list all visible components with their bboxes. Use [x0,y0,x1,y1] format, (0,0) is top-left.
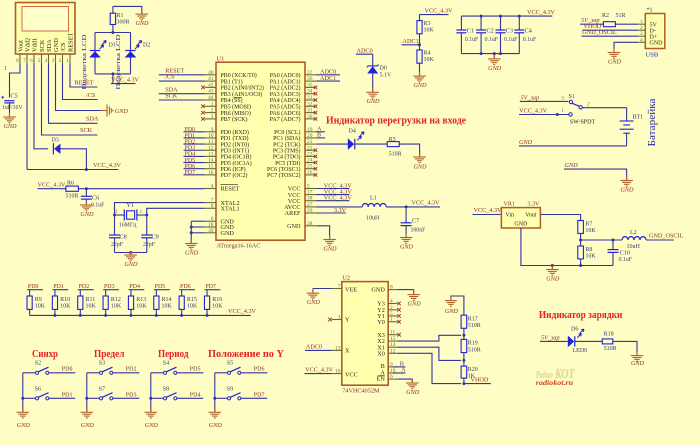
net VHOD at ladder [462,377,490,386]
wire X1 to node B [398,347,462,360]
svg-text:PB1 (T1): PB1 (T1) [221,78,243,85]
svg-text:Y: Y [345,317,350,324]
ground under D0 [366,88,380,105]
svg-text:PD6 (ICP): PD6 (ICP) [221,166,246,173]
net PD1 at S6 [49,392,75,398]
svg-text:VEE: VEE [345,287,357,294]
net SDA at U1 [159,87,205,94]
resistor R15 10K [179,290,198,316]
svg-text:PC5 (TDI): PC5 (TDI) [275,160,300,167]
svg-text:Y0: Y0 [377,319,385,326]
svg-text:ATmega16-16AC: ATmega16-16AC [217,243,261,250]
svg-text:2: 2 [587,102,590,108]
ground sideways at LCD [101,104,128,116]
ground at USB [608,48,622,65]
no-connect marks U1 left [201,86,205,121]
multiplexer U2 74VHC4052M body [342,275,388,395]
svg-text:PD2 (INT0): PD2 (INT0) [221,141,250,148]
GND rail of capacitor bank [461,52,519,59]
svg-text:27: 27 [307,202,313,208]
svg-text:15: 15 [208,164,214,170]
wire SDA stub; net SDA [49,64,99,124]
svg-text:10K: 10K [35,303,46,309]
wire Vout to C5; node 1 [4,64,20,98]
switch S7 [87,386,113,400]
svg-text:PD6: PD6 [180,284,191,290]
svg-text:PD3 (INT1): PD3 (INT1) [221,147,250,154]
svg-text:VCC_4.3V: VCC_4.3V [111,77,140,84]
svg-text:10K: 10K [86,303,97,309]
title S4 group [158,348,189,360]
svg-text:VCC_4.3V: VCC_4.3V [38,181,67,188]
svg-text:510R: 510R [468,323,481,329]
svg-text:4: 4 [390,299,393,305]
svg-text:R8: R8 [585,247,592,253]
svg-text:GND: GND [307,299,321,306]
resistor R13 10K [128,290,147,316]
ground at S5 group [209,408,223,429]
svg-text:22pF: 22pF [111,242,124,248]
svg-text:X0: X0 [377,350,385,357]
svg-text:C5: C5 [11,93,18,100]
resistor R3 10K [417,15,435,45]
net VHOD at USB [583,23,639,30]
net PD4 at S8 [177,392,203,398]
net GND at battery [519,139,627,146]
svg-text:24: 24 [307,158,313,164]
net GND_OSCIL at L2 [646,233,684,240]
svg-text:2: 2 [211,108,214,114]
capacitor C7 100nF [401,207,426,238]
resistor R16 10K [204,290,223,316]
svg-text:PD2: PD2 [79,284,90,290]
svg-text:11: 11 [390,330,395,336]
LCD pins 1-8 [16,54,70,64]
svg-text:S8: S8 [163,386,169,392]
svg-text:10K: 10K [60,303,71,309]
no-connect marks U2 [328,302,401,337]
svg-text:PD0: PD0 [62,367,73,373]
svg-text:S7: S7 [99,386,105,392]
wire U1 PC2 to LED D4 [317,143,348,145]
svg-text:32: 32 [307,101,313,107]
svg-text:C10: C10 [620,250,630,257]
svg-text:25: 25 [307,164,313,170]
svg-text:GND: GND [287,223,301,230]
comment text for D1 [81,34,88,90]
svg-text:S4: S4 [163,361,169,367]
svg-text:S3: S3 [99,361,105,367]
svg-text:510R: 510R [468,347,481,353]
svg-text:5V_зар: 5V_зар [521,94,540,101]
LED D6 [548,327,587,354]
svg-text:GND: GND [565,162,579,169]
svg-text:PA2 (ADC2): PA2 (ADC2) [270,85,301,92]
svg-text:C4: C4 [525,28,532,35]
svg-text:ADC1: ADC1 [403,38,419,45]
svg-text:4: 4 [45,58,48,64]
resistor R9 10K [27,290,46,316]
svg-text:USB: USB [646,52,659,59]
LED D4 [348,129,364,150]
capacitor C2 0.1uF [476,16,499,54]
svg-text:37: 37 [307,70,313,76]
svg-text:PB0 (XCK/T0): PB0 (XCK/T0) [221,72,257,79]
svg-text:PB6 (MISO): PB6 (MISO) [221,110,251,117]
ground under capacitor bank [488,55,502,72]
svg-text:510R: 510R [389,152,402,158]
svg-text:R18: R18 [604,331,614,337]
svg-text:Vout: Vout [525,213,537,219]
wire U2 VEE to ground [313,289,332,294]
svg-text:PD0 (RXD): PD0 (RXD) [221,129,249,136]
svg-text:GND: GND [408,301,422,308]
no-connect marks U1 right [314,86,318,177]
svg-text:PD4 (OC1B): PD4 (OC1B) [221,154,252,161]
wire X2 to node A [398,335,462,341]
svg-text:R10: R10 [60,297,70,303]
svg-text:PC6 (TOSC1): PC6 (TOSC1) [267,166,300,173]
ground mid right [620,176,634,193]
svg-text:10uH: 10uH [366,216,380,222]
svg-text:PD4: PD4 [190,392,201,398]
net ADC0 at U2 [305,343,332,350]
net PD3 at R12 [103,284,119,290]
net 5V_zar at S1 [520,94,568,101]
net VCC_4.3V at U1 pin 5 [317,183,353,190]
svg-text:5V_зар: 5V_зар [541,334,560,341]
svg-text:R19: R19 [468,341,478,347]
svg-text:21: 21 [307,139,313,145]
svg-text:PC2 (TCK): PC2 (TCK) [273,141,300,148]
switch S4 [151,361,177,375]
svg-text:PD3: PD3 [104,284,115,290]
ground at VR1 [546,265,560,282]
svg-text:PB7 (SCK): PB7 (SCK) [221,116,248,123]
svg-text:PC1 (SDA): PC1 (SDA) [273,135,300,142]
svg-text:PA1 (ADC1): PA1 (ADC1) [270,78,301,85]
svg-text:S5: S5 [227,361,233,367]
capacitor C9 22pF [141,214,158,253]
svg-text:U1: U1 [217,56,225,63]
svg-text:2: 2 [390,305,393,311]
net PD5 at R14 [154,284,170,290]
resistor R10 10K [52,290,71,316]
svg-text:0.1uF: 0.1uF [523,37,537,43]
svg-text:VCC_4.3V: VCC_4.3V [305,367,334,374]
title S2 group [32,348,58,360]
svg-text:39: 39 [208,228,214,234]
svg-text:11: 11 [208,139,213,145]
net B at U2 [393,360,406,367]
svg-text:22pF: 22pF [143,242,156,248]
svg-text:PA4 (ADC4): PA4 (ADC4) [270,97,301,104]
svg-text:3: 3 [338,315,341,321]
svg-text:PD5 (OC1A): PD5 (OC1A) [221,160,252,167]
ground at R5 [413,153,427,171]
svg-text:S9: S9 [227,386,233,392]
ground under U1 [185,239,199,256]
net RESET at U1 [159,67,205,75]
title S3 group [94,348,125,360]
svg-text:16: 16 [335,369,341,375]
svg-text:C1: C1 [467,28,474,35]
svg-text:PD7 (OC2): PD7 (OC2) [221,172,248,179]
resistor R5 510R [387,137,401,158]
svg-text:Vdd2: Vdd2 [25,38,32,52]
resistor R20 1K [461,366,478,384]
svg-text:PD1 (TXD): PD1 (TXD) [221,135,249,142]
wire /CS stub; net /CS [63,64,98,100]
svg-text:5.1V: 5.1V [380,73,393,79]
svg-text:PC4 (TDO): PC4 (TDO) [273,154,301,161]
wire U2 EN to ground [398,379,413,383]
wire Vdd1 to D3 [34,64,86,170]
svg-text:R16: R16 [212,297,222,303]
svg-text:10K: 10K [136,303,147,309]
svg-text:1: 1 [140,209,143,215]
svg-text:AREF: AREF [285,210,301,217]
inductor L2 10uH [622,230,646,250]
svg-text:Vin: Vin [505,213,514,219]
wire R6 to U1 RESET pin [78,187,204,190]
svg-text:GND: GND [17,422,31,429]
wire R5 to ground [399,144,419,157]
svg-text:PD1: PD1 [62,392,73,398]
resistor R8 10K [578,240,597,266]
net VCC_4.3V at U2 [305,367,334,374]
LED D1 [89,41,116,58]
svg-text:R6: R6 [67,181,74,187]
svg-text:300R: 300R [117,20,130,26]
svg-text:74VHC4052M: 74VHC4052M [342,387,380,394]
net B at U1 [317,132,326,139]
comment text for D2 [115,34,122,90]
svg-text:D0: D0 [380,66,387,72]
svg-text:VCC: VCC [345,372,358,379]
svg-text:SDA: SDA [46,39,53,52]
svg-text:КОТ: КОТ [554,366,575,381]
resistor R19 510R [461,339,481,360]
svg-text:GND: GND [371,287,385,294]
svg-text:GND: GND [145,422,159,429]
net ADC0 at D0 [356,47,373,54]
net 5V_zar at D6 [540,334,560,341]
svg-text:4: 4 [211,184,214,190]
svg-text:Индикатор зарядки: Индикатор зарядки [539,309,623,321]
svg-text:PB2 (AIN0/INT2): PB2 (AIN0/INT2) [221,85,264,92]
svg-text:R2: R2 [602,13,609,19]
svg-text:GND: GND [445,308,459,315]
svg-text:6: 6 [390,374,393,380]
svg-text:PD0: PD0 [28,284,39,290]
ground under R4 [413,72,427,89]
svg-text:1: 1 [390,317,393,323]
svg-text:PC7 (TOSC2): PC7 (TOSC2) [267,172,300,179]
svg-text:10K: 10K [424,57,435,63]
resistor R18 510R [602,331,616,352]
svg-text:ADC0: ADC0 [306,343,322,350]
svg-text:41: 41 [208,76,214,82]
svg-text:43: 43 [208,89,214,95]
svg-text:C9: C9 [152,234,159,241]
svg-text:C7: C7 [412,218,419,225]
svg-text:7: 7 [338,284,341,290]
svg-text:16МГц: 16МГц [119,223,136,229]
wire VR1 Vout to R7 [540,215,580,221]
svg-text:R4: R4 [424,51,431,57]
svg-text:PA5 (ADC5): PA5 (ADC5) [270,104,301,111]
wire ladder top to ground [451,296,464,315]
svg-text:38: 38 [307,196,313,202]
svg-text:13: 13 [208,151,214,157]
switch S8 [151,386,177,400]
svg-text:RESET: RESET [221,186,240,193]
svg-text:U2: U2 [342,275,350,282]
svg-text:1: 1 [66,58,69,64]
svg-text:9: 9 [211,127,214,133]
net ADC0 at U1 [317,69,341,76]
svg-text:C3: C3 [506,28,513,35]
svg-text:20: 20 [307,133,313,139]
LCD display module [16,3,76,55]
ground at S2 group [17,408,31,429]
svg-text:GND: GND [514,221,528,227]
svg-text:10K: 10K [424,28,435,34]
ground at ladder top [445,296,459,315]
battery BT1 [620,108,644,146]
svg-text:10K: 10K [111,303,122,309]
resistor R14 10K [154,290,173,316]
svg-text:VCC_4.3V: VCC_4.3V [93,162,122,169]
switch S6 [23,386,49,400]
svg-text:GND: GND [323,246,337,253]
svg-text:/CS: /CS [60,42,67,52]
ground at R1 [135,10,149,27]
svg-text:PD3: PD3 [126,392,137,398]
net GND_OSCIL at USB [582,29,639,36]
svg-text:GND: GND [185,250,199,257]
svg-text:1uF/16V: 1uF/16V [2,105,23,111]
ground at S3 group [81,408,95,429]
net VCC_4.3V at U1 pin 17 [317,189,353,196]
svg-text:10: 10 [208,133,214,139]
ground under C7 [400,233,414,250]
svg-text:13: 13 [335,345,341,351]
svg-text:PA3 (ADC3): PA3 (ADC3) [270,91,301,98]
svg-text:16: 16 [208,170,214,176]
svg-text:PD7: PD7 [205,284,216,290]
ground at U2 EN [406,379,420,396]
resistor R7 10K [578,221,597,241]
svg-text:40: 40 [208,70,214,76]
logo radiokot [536,366,575,387]
svg-text:/CS: /CS [165,73,175,80]
ground at U1 pin 28 [323,235,337,252]
wire USB GND pin to ground [614,42,638,52]
svg-text:10K: 10K [585,253,596,259]
svg-text:GND: GND [546,276,560,283]
svg-text:1: 1 [561,108,564,114]
svg-text:36: 36 [307,76,313,82]
net SCK at U1 [159,93,205,100]
svg-text:Предел: Предел [94,348,125,360]
svg-text:42: 42 [208,82,214,88]
svg-text:GND: GND [3,123,17,130]
wire R1 to ground [113,6,142,14]
svg-text:D6: D6 [571,327,578,333]
title S5 group [208,348,284,360]
svg-text:GND: GND [608,59,622,66]
svg-text:R9: R9 [35,297,42,303]
net PD6 at S5 [241,367,267,373]
ground under crystal [124,251,138,268]
svg-text:6: 6 [30,58,33,64]
net VCC_4.3V at U1 pin 38 [317,195,353,202]
net 3.3V at U1 AREF [317,207,347,214]
svg-text:GND: GND [81,422,95,429]
wire XTAL1 to crystal [147,208,205,215]
resistor R17 510R [461,315,481,335]
svg-text:GND: GND [631,360,645,367]
net ADC1 at U1 [317,75,341,82]
net VCC_4.3V under backlight [111,77,140,84]
svg-text:3: 3 [561,95,564,101]
U2 pins [332,284,398,381]
resistor R1 300R [110,6,129,32]
battery comment text [647,98,658,146]
svg-text:9: 9 [390,362,393,368]
svg-text:1: 1 [211,101,214,107]
svg-text:44: 44 [208,95,214,101]
svg-text:PA7 (ADC7): PA7 (ADC7) [270,116,301,123]
net PD4 at R13 [129,284,145,290]
svg-text:D2: D2 [143,43,150,49]
svg-text:GND: GND [80,211,94,218]
svg-text:radiokot.ru: radiokot.ru [536,380,574,387]
wire U1 GND pins [190,221,205,243]
svg-text:RESET: RESET [68,32,75,52]
svg-text:SCK: SCK [39,39,46,52]
svg-text:Подсветка LCD: Подсветка LCD [81,34,88,90]
svg-text:GND_OSCIL: GND_OSCIL [582,29,617,36]
U1 right pins [305,70,317,227]
svg-text:L2: L2 [630,230,637,236]
svg-text:26: 26 [307,170,313,176]
svg-text:0.1uF: 0.1uF [465,37,479,43]
svg-text:33: 33 [307,95,313,101]
net VCC_4.3V at R3 [420,7,454,14]
svg-text:0.1uF: 0.1uF [619,257,633,263]
svg-text:GND: GND [413,164,427,171]
capacitor C6 0.1uF [81,189,105,209]
svg-text:XTAL1: XTAL1 [221,206,240,213]
svg-text:GND: GND [115,108,129,115]
svg-text:SCK: SCK [80,127,93,134]
svg-text:3: 3 [640,31,643,37]
svg-text:R20: R20 [468,367,478,373]
svg-text:Период: Период [158,348,189,360]
svg-text:R1: R1 [117,13,124,19]
switch S3 [87,361,113,375]
wire Vdd2 to VCC rail [26,64,28,170]
svg-text:GND: GND [400,244,414,251]
net VCC_4.3V at R6 [38,181,67,188]
svg-text:C6: C6 [92,195,99,202]
ground at U2 VEE [307,289,321,306]
wire RESET stub; net RESET [70,64,98,88]
capacitor C1 0.1uF [456,16,479,54]
